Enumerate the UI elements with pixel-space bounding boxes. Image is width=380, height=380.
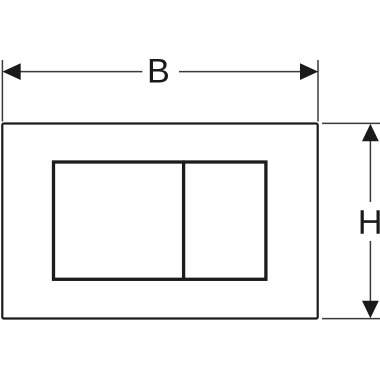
arrowhead H bottom [362, 301, 379, 318]
arrowhead B left [2, 63, 20, 80]
dimension line H upper segment [369, 127, 371, 202]
arrowhead B right [300, 63, 318, 80]
label H [361, 210, 380, 234]
dimension line B right segment [179, 71, 314, 73]
extension line top (H) [322, 122, 380, 124]
extension line bottom (H) [322, 318, 380, 320]
arrowhead H top [362, 124, 379, 141]
label B [150, 59, 168, 83]
button divider [182, 160, 185, 281]
extension line left (B) [1, 60, 3, 122]
extension line right (B) [317, 60, 319, 122]
button panel outline [54, 162, 266, 279]
dimension line H lower segment [369, 241, 371, 315]
flush plate outer panel [2, 124, 317, 319]
dimension line B left segment [6, 71, 142, 73]
